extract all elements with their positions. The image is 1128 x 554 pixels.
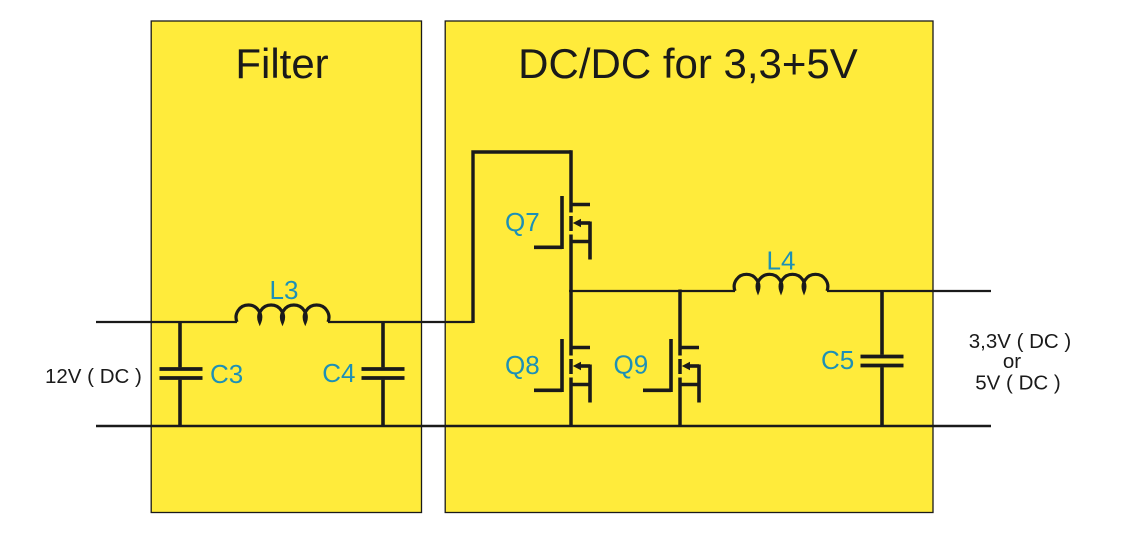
inductor L4 [734,274,828,291]
svg-text:L4: L4 [767,246,796,276]
wire: L4 to output [827,290,991,292]
svg-text:or: or [1003,350,1021,373]
filter block box [151,21,421,513]
svg-text:C5: C5 [821,345,854,375]
transistor Q7 (N-MOSFET) [534,196,590,260]
capacitor C5 [861,290,904,427]
svg-text:C4: C4 [322,358,355,388]
svg-text:L3: L3 [270,275,299,305]
DC/DC block box [445,21,933,513]
svg-text:Filter: Filter [235,40,328,87]
svg-text:C3: C3 [210,359,243,389]
transistor Q8 (N-MOSFET) [534,339,590,403]
wire: switch node to L4 [569,290,735,292]
svg-text:12V ( DC ): 12V ( DC ) [45,365,142,388]
svg-text:5V ( DC ): 5V ( DC ) [975,372,1060,395]
wire: Q7 drain riser and top link [473,152,571,323]
capacitor C3 [160,321,203,427]
inductor L3 [236,305,329,322]
capacitor C4 [362,321,405,427]
wire: 12V input top rail left of L3 [96,321,237,323]
wire: bottom return rail [96,425,991,427]
transistor Q9 (N-MOSFET) [643,339,699,403]
svg-text:DC/DC for 3,3+5V: DC/DC for 3,3+5V [518,40,858,87]
svg-text:Q7: Q7 [505,207,540,237]
wire: top rail from L3 to Q7 riser [328,321,473,323]
wire: Q9 drain/source vertical with channel gaps [678,290,682,428]
svg-text:Q9: Q9 [614,350,649,380]
svg-text:Q8: Q8 [505,350,540,380]
wire: main vertical Q7/Q8 channel line with gaps [569,150,573,427]
